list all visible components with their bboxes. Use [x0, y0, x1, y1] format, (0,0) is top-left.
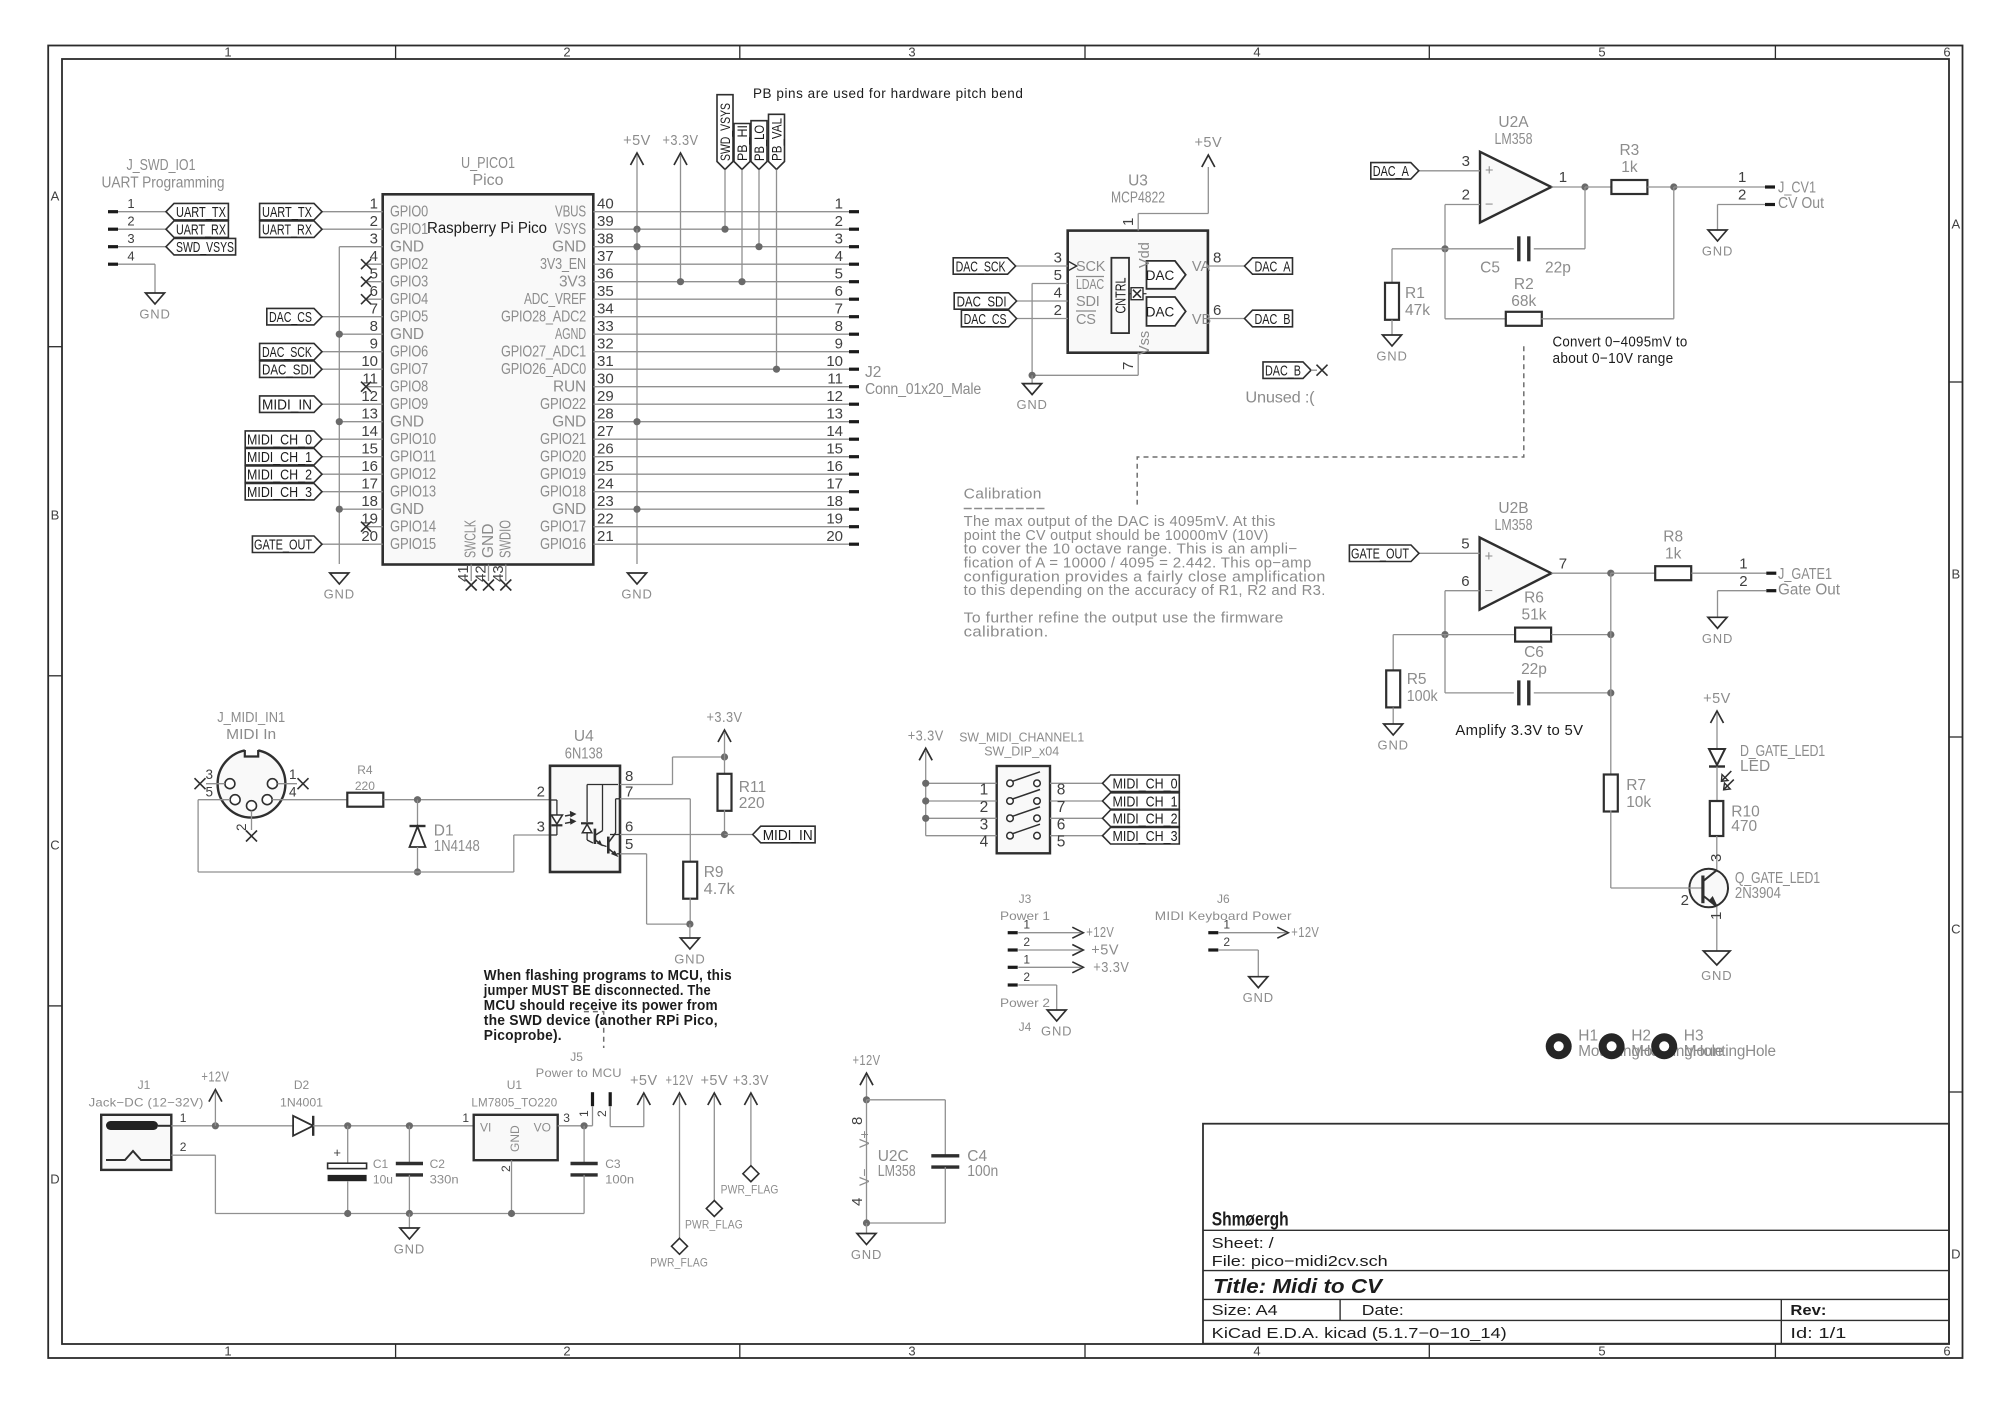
svg-text:4: 4 — [1253, 45, 1260, 60]
diode D1 1N4148 — [417, 800, 419, 826]
svg-text:22p: 22p — [1545, 260, 1571, 277]
svg-text:R9: R9 — [704, 864, 724, 881]
wire to J_CV1 — [1674, 186, 1765, 188]
Pico bottom pins SWCLK GND SWDIO (41-43) — [470, 565, 472, 582]
svg-text:DAC_CS: DAC_CS — [269, 309, 312, 326]
U3 pin 8 VA with label DAC_A — [1208, 265, 1245, 267]
capacitor C5 22p feedback — [1441, 245, 1448, 252]
DIN pin 2 (nc) — [251, 811, 253, 830]
svg-text:D2: D2 — [294, 1078, 310, 1092]
svg-text:GND: GND — [1378, 738, 1409, 753]
svg-text:GPIO5: GPIO5 — [390, 308, 428, 325]
svg-text:GND: GND — [552, 238, 586, 255]
svg-text:J_SWD_IO1: J_SWD_IO1 — [127, 157, 196, 174]
wire J4 pin1 to +3.3V — [1072, 962, 1083, 973]
svg-text:6: 6 — [835, 283, 843, 300]
svg-text:GND: GND — [390, 501, 424, 518]
svg-text:DAC_CS: DAC_CS — [964, 311, 1007, 328]
svg-text:When flashing programs to MCU,: When flashing programs to MCU, this — [484, 968, 732, 984]
svg-text:GPIO19: GPIO19 — [540, 466, 586, 483]
wire J6 pin2 to GND — [1218, 949, 1258, 951]
svg-text:SCK: SCK — [1076, 259, 1106, 275]
svg-text:to this depending on the accur: to this depending on the accuracy of R1,… — [964, 583, 1326, 599]
capacitor C1 10u polarized — [347, 1126, 349, 1163]
+5V power at gate LED — [1711, 711, 1724, 723]
svg-text:Shmøergh: Shmøergh — [1212, 1210, 1289, 1231]
svg-text:2: 2 — [370, 213, 378, 230]
svg-text:1: 1 — [577, 1110, 591, 1117]
ground at U2C — [866, 1223, 868, 1234]
connector J_CV1 CV Out — [1765, 185, 1775, 188]
svg-text:UART_TX: UART_TX — [262, 204, 312, 221]
svg-text:2: 2 — [1738, 187, 1746, 204]
svg-text:Unused :(: Unused :( — [1245, 390, 1315, 407]
svg-text:2: 2 — [980, 799, 989, 816]
svg-text:GPIO6: GPIO6 — [390, 343, 428, 360]
resistor R8 1k — [1611, 572, 1655, 574]
label DAC_B unused — [1263, 362, 1311, 379]
svg-text:14: 14 — [826, 423, 843, 440]
svg-text:MIDI_CH_0: MIDI_CH_0 — [247, 432, 312, 449]
DIN pin 5 wire — [198, 799, 230, 801]
svg-text:14: 14 — [361, 423, 378, 440]
connector J_GATE1 Gate Out — [1766, 572, 1776, 575]
svg-text:6: 6 — [1461, 573, 1469, 590]
diode D2 1N4001 — [293, 1116, 313, 1136]
svg-text:2: 2 — [835, 213, 843, 230]
svg-text:42: 42 — [473, 565, 490, 582]
ground at J4 — [1056, 1009, 1058, 1011]
U3 pin 6 VB with label DAC_B — [1208, 318, 1245, 320]
svg-text:+5V: +5V — [623, 133, 651, 149]
svg-text:6: 6 — [1213, 302, 1221, 319]
svg-text:GPIO20: GPIO20 — [540, 448, 586, 465]
svg-text:GND: GND — [1702, 244, 1733, 259]
ground at J_SWD_IO1 pin 4 — [154, 292, 156, 294]
svg-text:calibration.: calibration. — [964, 625, 1049, 641]
svg-text:GND: GND — [139, 307, 170, 322]
svg-text:8: 8 — [835, 318, 843, 335]
svg-text:GND: GND — [1041, 1024, 1072, 1039]
svg-text:MIDI_CH_3: MIDI_CH_3 — [1113, 828, 1178, 845]
svg-text:MCU should receive its power f: MCU should receive its power from — [484, 998, 718, 1014]
svg-text:J_MIDI_IN1: J_MIDI_IN1 — [217, 710, 285, 726]
svg-text:+5V: +5V — [1091, 943, 1119, 959]
svg-text:1: 1 — [224, 45, 231, 60]
svg-text:GPIO28_ADC2: GPIO28_ADC2 — [501, 308, 586, 325]
svg-text:7: 7 — [1559, 555, 1567, 572]
svg-text:22p: 22p — [1521, 661, 1547, 678]
svg-text:GPIO13: GPIO13 — [390, 483, 436, 500]
svg-text:J4: J4 — [1019, 1020, 1032, 1034]
svg-text:21: 21 — [597, 528, 614, 545]
svg-text:GND: GND — [552, 501, 586, 518]
svg-text:3: 3 — [563, 1111, 570, 1125]
svg-text:+: + — [333, 1145, 341, 1160]
svg-text:GND: GND — [390, 326, 424, 343]
svg-text:D: D — [50, 1172, 59, 1187]
svg-text:MountingHole: MountingHole — [1684, 1043, 1776, 1060]
svg-text:PWR_FLAG: PWR_FLAG — [721, 1183, 779, 1197]
svg-text:DAC_SDI: DAC_SDI — [957, 293, 1007, 310]
svg-text:1k: 1k — [1621, 159, 1638, 176]
svg-text:3: 3 — [908, 1344, 915, 1359]
svg-text:29: 29 — [597, 388, 614, 405]
svg-text:GPIO11: GPIO11 — [390, 448, 436, 465]
svg-text:A: A — [1951, 217, 1960, 232]
svg-text:R4: R4 — [357, 763, 373, 777]
svg-text:2: 2 — [1681, 892, 1689, 909]
svg-text:3: 3 — [1708, 854, 1725, 862]
svg-text:2: 2 — [1223, 935, 1230, 949]
ground at R5 — [1392, 723, 1394, 725]
svg-text:6: 6 — [1943, 1344, 1950, 1359]
svg-text:SWCLK: SWCLK — [463, 520, 480, 558]
DIN pin 1 (nc) — [277, 783, 297, 785]
svg-text:30: 30 — [597, 371, 614, 388]
switch pole 1 — [926, 782, 997, 784]
svg-text:C5: C5 — [1480, 260, 1500, 277]
svg-text:2: 2 — [537, 783, 545, 800]
svg-text:J_GATE1: J_GATE1 — [1778, 566, 1832, 583]
svg-text:GPIO12: GPIO12 — [390, 466, 436, 483]
svg-text:3: 3 — [1462, 153, 1470, 170]
svg-text:RUN: RUN — [553, 378, 586, 395]
op-amp U2C power pins — [866, 1100, 868, 1223]
DIN pin 3 (nc) — [206, 783, 225, 785]
svg-text:MIDI_IN: MIDI_IN — [763, 827, 813, 844]
svg-text:1: 1 — [1023, 918, 1030, 932]
svg-text:Convert 0−4095mV to: Convert 0−4095mV to — [1553, 334, 1688, 350]
svg-text:10u: 10u — [373, 1173, 393, 1187]
svg-text:3V3: 3V3 — [559, 273, 586, 290]
ground at J_CV1 — [1717, 229, 1719, 231]
svg-text:2: 2 — [1462, 187, 1470, 204]
DIN pin 4 wire to R4 — [272, 799, 347, 801]
wire J3 pin1 to +12V — [1072, 927, 1083, 938]
svg-text:100n: 100n — [967, 1163, 998, 1180]
svg-text:18: 18 — [361, 493, 378, 510]
svg-text:GPIO22: GPIO22 — [540, 396, 586, 413]
svg-text:C6: C6 — [1524, 644, 1544, 661]
svg-text:GPIO4: GPIO4 — [390, 291, 428, 308]
svg-text:1: 1 — [289, 767, 297, 782]
svg-text:+3.3V: +3.3V — [707, 710, 743, 726]
U3 internal DAC B — [1147, 297, 1186, 326]
svg-text:GND: GND — [1702, 631, 1733, 646]
svg-text:24: 24 — [597, 476, 614, 493]
svg-text:33: 33 — [597, 318, 614, 335]
svg-text:SW_MIDI_CHANNEL1: SW_MIDI_CHANNEL1 — [959, 731, 1084, 745]
+5V power at Pico right — [631, 153, 644, 165]
svg-text:D: D — [1951, 1247, 1960, 1262]
resistor R3 1k — [1585, 186, 1611, 188]
U3 pin 2 CS with label DAC_CS — [1017, 318, 1068, 320]
svg-text:GPIO10: GPIO10 — [390, 431, 436, 448]
svg-text:A: A — [51, 189, 60, 204]
svg-text:LM358: LM358 — [1495, 517, 1533, 534]
Pico left GND bus — [339, 246, 382, 248]
svg-text:20: 20 — [826, 528, 843, 545]
U3 internal DAC A — [1147, 261, 1186, 289]
svg-text:3: 3 — [127, 231, 134, 246]
wire J3 pin2 to +5V — [1072, 945, 1083, 956]
Pico right GND bus — [636, 229, 638, 564]
svg-text:3: 3 — [537, 819, 545, 836]
svg-text:VSYS: VSYS — [555, 221, 586, 238]
svg-text:9: 9 — [835, 336, 843, 353]
+12V power at U2C — [860, 1073, 873, 1085]
svg-text:jumper MUST BE disconnected. T: jumper MUST BE disconnected. The — [483, 983, 711, 999]
U3 internal gain symbol — [1131, 288, 1143, 300]
svg-text:4: 4 — [849, 1198, 866, 1206]
svg-text:PB pins are used for hardware: PB pins are used for hardware pitch bend — [753, 86, 1023, 101]
svg-text:+3.3V: +3.3V — [733, 1073, 769, 1089]
svg-text:GPIO7: GPIO7 — [390, 361, 428, 378]
label MIDI_CH_1 — [1103, 793, 1180, 809]
mounting hole H1 — [1546, 1033, 1572, 1059]
svg-text:MCP4822: MCP4822 — [1111, 190, 1165, 207]
svg-text:+12V: +12V — [1086, 925, 1114, 941]
wire +5V to VSYS pin 39 — [633, 226, 640, 233]
svg-text:6: 6 — [1057, 816, 1066, 833]
+3.3V power at U4 — [718, 730, 731, 742]
+3.3V power at SW_MIDI_CHANNEL1 — [919, 748, 932, 760]
svg-text:220: 220 — [739, 795, 765, 812]
wire J6 pin1 to +12V — [1277, 927, 1288, 938]
svg-text:5: 5 — [1598, 1344, 1605, 1359]
svg-text:2: 2 — [595, 1110, 609, 1117]
svg-text:27: 27 — [597, 423, 614, 440]
mounting hole H2 — [1599, 1033, 1625, 1059]
svg-text:VB: VB — [1192, 312, 1211, 328]
svg-text:+: + — [1485, 549, 1493, 565]
svg-text:Vss: Vss — [1137, 331, 1153, 355]
svg-text:7: 7 — [1057, 799, 1066, 816]
U3 MCP4822 DAC — [1068, 231, 1208, 353]
svg-text:GND: GND — [851, 1247, 882, 1262]
svg-text:Title: Midi to CV: Title: Midi to CV — [1213, 1275, 1385, 1298]
label DAC_SDI at Pico pin 10 — [322, 368, 383, 370]
svg-text:13: 13 — [361, 406, 378, 423]
PWR_FLAG 3 — [743, 1166, 759, 1182]
label MIDI_CH_2 — [1103, 810, 1180, 827]
svg-text:MIDI_CH_2: MIDI_CH_2 — [1113, 811, 1178, 828]
svg-text:CNTRL: CNTRL — [1114, 278, 1130, 314]
svg-text:2: 2 — [1739, 573, 1747, 590]
svg-text:4: 4 — [835, 248, 843, 265]
svg-text:1: 1 — [370, 196, 378, 213]
svg-text:470: 470 — [1731, 818, 1757, 835]
svg-text:+5V: +5V — [1194, 135, 1222, 151]
svg-text:4: 4 — [1054, 285, 1062, 302]
svg-text:1: 1 — [1223, 918, 1230, 932]
svg-text:Conn_01x20_Male: Conn_01x20_Male — [865, 381, 981, 398]
svg-text:GND: GND — [390, 413, 424, 430]
svg-text:2: 2 — [127, 214, 134, 229]
svg-text:R2: R2 — [1514, 276, 1534, 293]
label PB_VAL (top flag) — [769, 114, 785, 169]
svg-text:C2: C2 — [430, 1157, 446, 1171]
svg-text:GND: GND — [1376, 349, 1407, 364]
svg-text:GND: GND — [1243, 990, 1274, 1005]
U4 pin 6 wire to MIDI_IN label — [620, 834, 725, 836]
svg-text:Raspberry Pi Pico: Raspberry Pi Pico — [427, 220, 547, 237]
svg-text:R3: R3 — [1619, 142, 1639, 159]
svg-text:U2A: U2A — [1498, 114, 1529, 131]
ground at J_GATE1 — [1717, 616, 1719, 618]
svg-text:UART_TX: UART_TX — [176, 204, 226, 221]
svg-text:SW_DIP_x04: SW_DIP_x04 — [984, 745, 1059, 759]
svg-text:C: C — [1951, 922, 1960, 937]
svg-text:PB_LO: PB_LO — [751, 125, 767, 161]
svg-text:+5V: +5V — [1703, 691, 1731, 707]
switch pole 4 — [926, 835, 997, 837]
svg-text:GPIO21: GPIO21 — [540, 431, 586, 448]
svg-text:4: 4 — [289, 784, 297, 799]
svg-text:7: 7 — [625, 783, 633, 800]
svg-text:DAC_SCK: DAC_SCK — [262, 344, 312, 361]
svg-text:Jack−DC (12−32V): Jack−DC (12−32V) — [89, 1096, 204, 1110]
svg-text:1: 1 — [835, 196, 843, 213]
svg-text:DAC: DAC — [1146, 305, 1175, 320]
svg-text:MIDI_CH_0: MIDI_CH_0 — [1113, 776, 1178, 793]
svg-text:V+: V+ — [856, 1130, 872, 1148]
svg-text:R11: R11 — [739, 779, 766, 796]
svg-text:16: 16 — [361, 458, 378, 475]
svg-text:PB_VAL: PB_VAL — [769, 118, 785, 161]
svg-text:GPIO3: GPIO3 — [390, 273, 428, 290]
svg-text:32: 32 — [597, 336, 614, 353]
svg-text:GPIO15: GPIO15 — [390, 536, 436, 553]
svg-text:12: 12 — [826, 388, 843, 405]
label PB_HI (top flag) — [734, 124, 750, 170]
svg-text:3V3_EN: 3V3_EN — [540, 256, 586, 273]
svg-text:MIDI_IN: MIDI_IN — [262, 397, 312, 414]
svg-text:5: 5 — [1054, 267, 1062, 284]
svg-text:SWDIO: SWDIO — [497, 520, 514, 558]
svg-text:J6: J6 — [1217, 892, 1230, 906]
svg-text:Size: A4: Size: A4 — [1212, 1302, 1278, 1319]
svg-text:11: 11 — [827, 371, 843, 388]
U3 pin 5 LDAC to GND — [1032, 283, 1068, 285]
label DAC_CS at Pico pin 7 — [322, 316, 383, 318]
U_PICO1 Raspberry Pi Pico — [383, 194, 594, 564]
svg-text:3: 3 — [1054, 250, 1062, 267]
svg-text:D1: D1 — [434, 823, 454, 840]
ground at R9 — [689, 924, 691, 938]
label MIDI_CH_1 at Pico pin 15 — [322, 456, 383, 458]
svg-text:PWR_FLAG: PWR_FLAG — [685, 1218, 743, 1232]
ground at U3 — [1031, 375, 1033, 383]
svg-text:H1: H1 — [1578, 1028, 1598, 1045]
svg-text:−: − — [1485, 584, 1493, 600]
resistor R11 220 — [724, 757, 726, 775]
svg-text:SWD_VSYS: SWD_VSYS — [176, 239, 234, 256]
svg-text:GPIO9: GPIO9 — [390, 396, 428, 413]
svg-text:1: 1 — [1739, 555, 1747, 572]
J1 pin 1 wire — [171, 1125, 293, 1127]
svg-text:GPIO14: GPIO14 — [390, 518, 436, 535]
svg-text:Gate Out: Gate Out — [1778, 582, 1841, 599]
svg-text:MIDI_CH_3: MIDI_CH_3 — [247, 484, 312, 501]
svg-text:+12V: +12V — [853, 1053, 881, 1069]
svg-text:GPIO8: GPIO8 — [390, 378, 428, 395]
Pico unconnected pins (x marks) — [366, 263, 383, 265]
svg-text:2: 2 — [1023, 935, 1030, 949]
ground at Pico left GND bus — [338, 572, 340, 574]
svg-text:GND: GND — [508, 1125, 522, 1152]
svg-text:MIDI_CH_1: MIDI_CH_1 — [1113, 793, 1178, 810]
capacitor C6 22p feedback — [1444, 635, 1446, 693]
title block — [1203, 1124, 1949, 1344]
label GATE_OUT at Pico pin 20 — [322, 543, 383, 545]
op-amp U2B LM358 — [1480, 538, 1552, 610]
svg-text:GPIO27_ADC1: GPIO27_ADC1 — [501, 343, 586, 360]
svg-text:U1: U1 — [507, 1078, 523, 1092]
label UART_RX (J_SWD) — [166, 221, 228, 238]
resistor R1 47k to GND — [1392, 248, 1445, 250]
svg-text:1: 1 — [980, 781, 989, 798]
svg-text:C1: C1 — [373, 1157, 389, 1171]
svg-text:Date:: Date: — [1362, 1302, 1404, 1319]
U2A output pin 1 — [1551, 186, 1585, 188]
svg-text:Amplify 3.3V to 5V: Amplify 3.3V to 5V — [1455, 723, 1583, 739]
resistor R10 470 — [1716, 767, 1718, 801]
svg-text:GND: GND — [394, 1242, 425, 1257]
svg-text:R8: R8 — [1663, 529, 1683, 546]
U4 internal photodetector and darlington — [587, 784, 618, 786]
U2B output pin 7 — [1551, 572, 1611, 574]
svg-text:330n: 330n — [430, 1173, 459, 1187]
label MIDI_CH_3 — [1103, 828, 1180, 845]
svg-text:ADC_VREF: ADC_VREF — [524, 291, 586, 308]
svg-text:23: 23 — [597, 493, 614, 510]
svg-text:5: 5 — [1057, 834, 1066, 851]
svg-text:GND: GND — [552, 413, 586, 430]
svg-text:+3.3V: +3.3V — [1093, 960, 1129, 976]
svg-text:DAC_A: DAC_A — [1373, 163, 1409, 180]
svg-text:10k: 10k — [1626, 794, 1651, 811]
svg-text:Sheet: /: Sheet: / — [1212, 1235, 1275, 1252]
svg-text:5: 5 — [1461, 536, 1469, 553]
svg-text:2N3904: 2N3904 — [1735, 885, 1781, 902]
label MIDI_CH_0 — [1103, 775, 1180, 792]
svg-text:GPIO1: GPIO1 — [390, 221, 428, 238]
svg-text:Vdd: Vdd — [1137, 242, 1153, 268]
svg-text:GPIO16: GPIO16 — [540, 536, 586, 553]
svg-text:5: 5 — [1598, 45, 1605, 60]
svg-text:C3: C3 — [605, 1157, 621, 1171]
resistor R2 68k feedback — [1444, 249, 1446, 319]
svg-text:47k: 47k — [1405, 302, 1430, 319]
svg-text:MIDI In: MIDI In — [226, 727, 276, 743]
label MIDI_CH_2 at Pico pin 16 — [322, 473, 383, 475]
label DAC_SCK at Pico pin 9 — [322, 351, 383, 353]
svg-text:34: 34 — [597, 301, 614, 318]
svg-text:File: pico−midi2cv.sch: File: pico−midi2cv.sch — [1212, 1253, 1388, 1270]
svg-text:1N4148: 1N4148 — [434, 838, 480, 855]
U4 pin 8 wire to +3.3V — [620, 784, 673, 786]
svg-text:R1: R1 — [1405, 285, 1425, 302]
label MIDI_CH_3 at Pico pin 17 — [322, 491, 383, 493]
svg-text:28: 28 — [597, 406, 614, 423]
svg-text:15: 15 — [826, 441, 843, 458]
svg-text:26: 26 — [597, 441, 614, 458]
svg-text:+12V: +12V — [666, 1073, 694, 1089]
svg-text:Power 2: Power 2 — [1000, 996, 1050, 1010]
svg-text:220: 220 — [355, 779, 375, 793]
